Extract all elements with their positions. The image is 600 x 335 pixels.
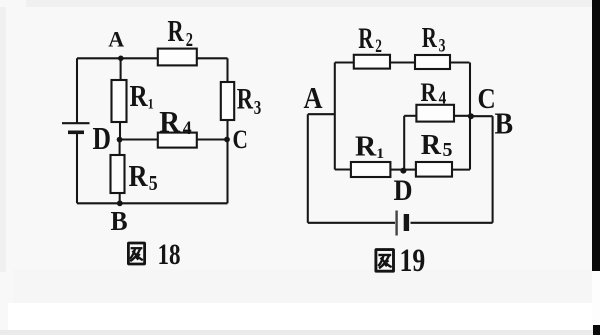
wire: fig19 bottom rail right of battery [411,222,493,224]
wire: fig18 bottom rail [77,202,228,204]
node C (fig19) [468,113,474,119]
node A (fig18) [118,56,124,62]
battery B2 long plate [395,211,397,236]
wire: fig19 inner right rail [469,63,471,170]
node D (fig19) [400,168,406,174]
wire: fig19 R4 branch left [404,115,416,117]
resistor R3 (fig19) [415,55,450,69]
resistor R5 (fig19) [416,162,452,177]
wire: fig19 D to R5 [403,169,416,171]
svg-text:B: B [111,206,128,236]
resistor R4 (fig19) [416,105,454,122]
wire: fig18 left battery rail upper [76,58,78,123]
wire: fig18 A to R1 [120,58,122,80]
wire: fig19 outer right rail B [492,116,494,223]
figure caption glyph 图 (fig18) [128,243,144,264]
node C (fig18) [224,137,230,143]
scan edge black bar right top [592,0,600,271]
svg-text:18: 18 [158,237,181,271]
scan shading bottom edge [0,330,600,335]
resistor R1 (fig19) [351,162,391,177]
wire: fig19 R1 to D [390,169,403,171]
svg-text:A: A [304,81,323,115]
wire: fig19 C to B rail [471,115,493,117]
node B (fig18) [117,200,123,206]
wire: fig19 R4 to C [454,115,471,117]
scan shading left edge [0,7,6,272]
battery B1 long plate [62,122,90,124]
svg-text:A: A [108,26,124,51]
svg-text:19: 19 [400,243,426,279]
wire: fig18 D to R4 [120,138,158,140]
wire: fig19 middle rail R4 to D [403,116,405,171]
resistor R4 (fig18) [158,133,197,148]
white strip bottom [8,303,592,330]
wire: fig18 R1 to D [119,122,121,140]
svg-text:D: D [394,174,413,207]
wire: fig19 R5 to right rail [452,169,470,171]
svg-text:B: B [495,107,514,141]
scan shading top edge [26,0,600,7]
wire: fig19 inner left rail [334,63,336,170]
wire: fig18 top A-rail [77,57,228,59]
wire: fig19 outer left rail [307,114,309,223]
wire: fig18 D to R5 [119,140,121,156]
wire: fig18 R4 to C [197,138,228,140]
resistor R2 (fig19) [354,55,390,69]
resistor R1 (fig18) [112,80,127,122]
battery B2 short plate [404,214,409,231]
wire: fig18 R5 to B [119,193,121,203]
node D (fig18) [117,137,123,143]
battery B1 short plate [68,131,84,135]
wire: fig19 lower branch left [335,168,351,170]
resistor R5 (fig18) [111,155,125,193]
figure caption glyph 图 (fig19) [376,250,394,272]
resistor R3 (fig18) [221,82,234,120]
svg-text:C: C [233,126,248,154]
scan shading lower band [13,269,600,303]
wire: fig19 bottom rail left of battery [308,222,395,224]
wire: fig18 right rail [226,58,228,203]
svg-text:D: D [93,121,111,156]
resistor R2 (fig18) [158,49,197,66]
svg-text:C: C [478,83,496,115]
wire: fig19 upper loop top rail [335,61,470,63]
scan edge black bar right bottom [593,325,600,335]
wire: fig19 A connector [308,113,335,115]
wire: fig18 left battery rail lower [76,134,78,203]
